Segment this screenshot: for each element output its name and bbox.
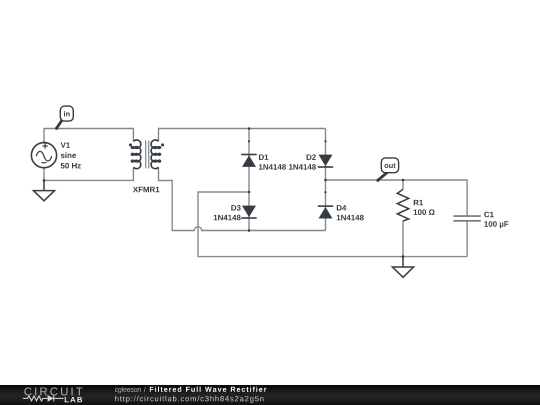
footer bar background [0, 385, 540, 405]
label D4 value [337, 215, 364, 221]
net flag in [55, 106, 73, 130]
pin dot D4 top [324, 191, 326, 193]
wire R1 column [402, 180, 404, 257]
wire out rail from D2 junction to R1 and C1 [326, 180, 468, 257]
label R1 value [414, 209, 435, 215]
transformer core bars [146, 141, 149, 169]
label XFMR1 [133, 187, 160, 192]
voltage source V1 circle [31, 143, 56, 168]
label D1 value [259, 164, 286, 170]
logo zigzag resistor [23, 396, 48, 401]
footer separator slash [144, 387, 146, 392]
junction node D1 bottom [248, 191, 251, 194]
junction node D3 bottom [248, 229, 251, 232]
capacitor C1 plates [453, 216, 480, 221]
label D3 value [214, 215, 241, 221]
label D4 designator [337, 205, 347, 210]
junction node V1 bottom [43, 179, 46, 182]
wire XFMR1 secondary bottom to bridge bottom rail with hop [159, 168, 326, 231]
wire top rail from V1 to XFMR1 primary [44, 129, 133, 143]
transformer phase dot secondary [161, 143, 164, 146]
diode D4 [318, 206, 333, 218]
label V1 value [61, 163, 81, 169]
label D3 designator [231, 205, 240, 211]
logo diode bar and line [54, 395, 64, 401]
label D1 designator [259, 155, 268, 160]
logo word LAB [65, 397, 82, 402]
net flag text in [64, 111, 70, 116]
logo diode triangle [48, 395, 54, 402]
wire D2-D4 column [325, 129, 327, 231]
label R1 designator [414, 200, 423, 205]
net flag text out [385, 163, 396, 168]
junction node R1 bottom [402, 255, 405, 258]
ground symbol under R1 [392, 257, 413, 278]
label D2 designator [307, 154, 316, 160]
transformer XFMR1 primary coil [131, 140, 140, 169]
diode D2 [318, 155, 333, 167]
wire XFMR1 secondary top to bridge top rail [159, 129, 326, 142]
pin dot D2 top [324, 140, 326, 142]
footer title [150, 387, 267, 392]
label V1 designator [61, 142, 70, 147]
footer url [115, 396, 263, 403]
logo word CIRCUIT [24, 387, 82, 395]
ground symbol under V1 [33, 180, 54, 200]
junction node R1 top [402, 179, 405, 182]
junction node D1 top rail [248, 127, 251, 130]
pin dot V1 top [43, 141, 45, 143]
wire node D1-D3 down to ground rail [198, 192, 467, 257]
label D2 value [289, 164, 316, 170]
footer author cgleeson [115, 387, 141, 394]
wire D1-D3 column [248, 129, 250, 231]
pin dot D1 top [248, 140, 250, 142]
net flag out [376, 158, 398, 182]
junction node out rail at D2 [324, 179, 327, 182]
transformer phase dot primary [129, 143, 132, 146]
wire V1 bottom to XFMR1 primary bottom [44, 168, 133, 181]
label C1 designator [484, 212, 494, 218]
diode D1 [241, 155, 256, 167]
label C1 value [484, 221, 508, 228]
diode D3 [241, 206, 256, 218]
label V1 type [61, 152, 76, 158]
transformer XFMR1 secondary coil [151, 140, 160, 169]
resistor R1 [397, 189, 408, 221]
